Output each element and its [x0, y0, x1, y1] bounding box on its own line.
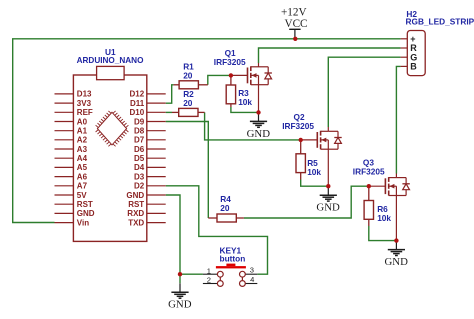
U1 left pin A1: [55, 127, 88, 136]
svg-text:IRF3205: IRF3205: [214, 57, 246, 67]
svg-text:D7: D7: [134, 136, 145, 145]
U1 left pin A0: [55, 117, 88, 126]
push button KEY1: [203, 264, 257, 287]
svg-text:10k: 10k: [307, 167, 321, 177]
U1 left pin GND: [55, 209, 95, 218]
U1 right pin D6: [134, 145, 166, 154]
svg-text:RGB_LED_STRIP: RGB_LED_STRIP: [406, 17, 474, 27]
ground: [384, 241, 408, 268]
U1 left pin A4: [55, 154, 88, 163]
wire R2 to Q2 gate node: [205, 112, 301, 139]
power flag +12V VCC: [281, 7, 307, 39]
resistor R1: [174, 81, 208, 89]
svg-text:20: 20: [183, 71, 193, 81]
svg-text:10k: 10k: [377, 213, 391, 223]
junction Q3 source ground node: [394, 238, 398, 242]
svg-text:3V3: 3V3: [77, 99, 92, 108]
svg-text:2: 2: [207, 276, 211, 285]
svg-text:RXD: RXD: [127, 209, 144, 218]
U1 right pin D12: [130, 90, 166, 99]
U1 left pin A3: [55, 145, 88, 154]
ground: [316, 186, 340, 213]
svg-text:IRF3205: IRF3205: [353, 166, 385, 176]
svg-text:20: 20: [183, 98, 193, 108]
svg-text:D2: D2: [134, 182, 145, 191]
svg-text:GND: GND: [384, 256, 408, 268]
U1 right pin GND: [126, 191, 165, 200]
svg-text:D3: D3: [134, 172, 145, 181]
svg-text:GND: GND: [247, 128, 271, 140]
svg-text:5V: 5V: [77, 191, 87, 200]
U1 right pin D3: [134, 172, 166, 181]
svg-text:D10: D10: [130, 108, 145, 117]
wire net G: H2 pin G to Q2 drain: [328, 57, 400, 127]
U1 right pin TXD: [128, 218, 166, 227]
svg-text:D12: D12: [130, 90, 145, 99]
svg-text:A7: A7: [77, 182, 88, 191]
resistor R2: [172, 108, 205, 116]
wire D9 to R4: [166, 122, 209, 219]
transistor Q2 IRF3205: [301, 127, 342, 186]
wire R3 to Q1 source ground node: [231, 107, 259, 112]
wire net B: H2 pin B to Q3 drain: [396, 66, 400, 173]
junction VCC rail: [293, 37, 297, 41]
svg-text:D5: D5: [134, 154, 145, 163]
svg-text:A0: A0: [77, 117, 88, 126]
svg-text:VCC: VCC: [284, 18, 307, 30]
junction Q1 gate node: [229, 73, 233, 77]
junction Q3 gate node: [367, 184, 371, 188]
transistor Q3 IRF3205: [369, 174, 410, 241]
U1 left pin REF: [55, 108, 93, 117]
svg-text:B: B: [410, 62, 417, 72]
svg-text:GND: GND: [126, 191, 144, 200]
wire D10 to R2: [166, 111, 172, 113]
U1 right pin D11: [130, 99, 166, 108]
junction Q2 gate node: [299, 138, 303, 142]
ground: [168, 283, 192, 310]
svg-text:4: 4: [250, 275, 254, 284]
U1 right pin RXD: [127, 209, 165, 218]
svg-text:A5: A5: [77, 163, 88, 172]
junction Q1 source ground node: [256, 110, 260, 114]
svg-text:D4: D4: [134, 163, 145, 172]
svg-text:REF: REF: [77, 108, 93, 117]
wire D11 to R1: [166, 85, 174, 103]
resistor R3: [226, 75, 235, 107]
svg-text:3: 3: [250, 266, 254, 275]
junction Q2 source ground node: [326, 184, 330, 188]
U1 left pin D13: [55, 90, 93, 99]
U1 left pin 5V: [55, 191, 88, 200]
IC U1 ARDUINO_NANO body: [73, 66, 146, 241]
U1 right pin D8: [134, 127, 166, 136]
wire net R: H2 pin R to Q1 drain: [259, 48, 401, 63]
junction GND at KEY1: [178, 272, 182, 276]
svg-text:D8: D8: [134, 127, 145, 136]
svg-text:D6: D6: [134, 145, 145, 154]
wire R4 to Q3 gate node: [244, 186, 369, 218]
wire R6 to Q3 source ground node: [369, 226, 397, 241]
U1 right pin D5: [134, 154, 166, 163]
svg-text:button: button: [220, 253, 246, 263]
svg-text:Vin: Vin: [77, 218, 89, 227]
svg-text:A3: A3: [77, 145, 88, 154]
U1 right pin RST: [128, 200, 166, 209]
svg-text:GND: GND: [77, 209, 95, 218]
svg-text:RST: RST: [128, 200, 144, 209]
resistor R5: [296, 140, 305, 180]
svg-text:A4: A4: [77, 154, 88, 163]
ground: [247, 112, 271, 139]
U1 left pin Vin: [55, 218, 90, 227]
resistor R6: [364, 186, 373, 226]
svg-text:D13: D13: [77, 90, 92, 99]
svg-text:ARDUINO_NANO: ARDUINO_NANO: [77, 56, 144, 65]
U1 right pin D10: [130, 108, 166, 117]
svg-text:D11: D11: [130, 99, 145, 108]
U1 left pin A6: [55, 172, 88, 181]
svg-text:D9: D9: [134, 117, 145, 126]
wire R1 to Q1 gate node: [208, 75, 231, 84]
wire ground junction to KEY1 pin 1: [180, 273, 203, 275]
wire D2 to KEY1 pin 3: [166, 186, 268, 274]
U1 right pin D4: [134, 163, 166, 172]
U1 left pin 3V3: [55, 99, 92, 108]
svg-text:10k: 10k: [238, 97, 252, 107]
svg-text:IRF3205: IRF3205: [282, 121, 314, 131]
U1 chip die glyph: [96, 111, 129, 146]
transistor Q1 IRF3205: [231, 63, 272, 112]
U1 right pin D9: [134, 117, 166, 126]
svg-text:1: 1: [207, 266, 211, 275]
svg-text:A1: A1: [77, 127, 88, 136]
svg-text:20: 20: [220, 203, 230, 213]
svg-text:A2: A2: [77, 136, 88, 145]
svg-text:A6: A6: [77, 172, 88, 181]
svg-text:GND: GND: [316, 202, 340, 214]
U1 left pin A5: [55, 163, 88, 172]
wire +12V net: Vin to VCC rail to H2 pin +: [13, 39, 401, 223]
resistor R4: [208, 214, 244, 222]
svg-text:GND: GND: [168, 299, 192, 311]
wire Arduino GND pin to ground junction: [166, 195, 180, 283]
connector H2 RGB_LED_STRIP: [401, 31, 426, 76]
U1 right pin D2: [134, 182, 166, 191]
U1 left pin A7: [55, 182, 88, 191]
svg-text:+12V: +12V: [281, 7, 307, 19]
svg-text:RST: RST: [77, 200, 93, 209]
svg-text:TXD: TXD: [128, 218, 144, 227]
U1 left pin RST: [55, 200, 93, 209]
U1 right pin D7: [134, 136, 166, 145]
wire R5 to Q2 source ground node: [301, 180, 329, 187]
U1 left pin A2: [55, 136, 88, 145]
